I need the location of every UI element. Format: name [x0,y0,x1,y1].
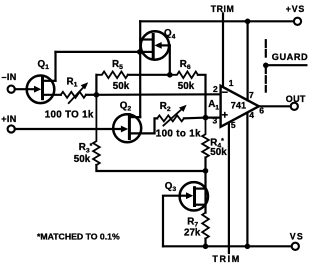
transistor Q2 [113,100,154,142]
node junction R1/R5/R3/pin2-wire [94,92,100,98]
resistor R1 (variable, 100 TO 1k) [45,76,94,120]
resistor R7 27k [184,213,209,239]
svg-text:100 to 1k: 100 to 1k [156,128,201,139]
wire +VS top rail [140,20,294,22]
resistor R5 50k [96,59,129,92]
svg-text:5: 5 [231,120,236,130]
wire Q1 drain up [54,52,56,81]
wire R5 to R6 junction [128,74,170,76]
wire TRIM top to op-amp pin 1 [222,14,224,88]
terminal VS [292,243,299,250]
node junction R5/R6/Q4-gate [167,72,173,78]
node GUARD dashed line [263,40,308,91]
svg-text:7: 7 [249,90,254,100]
wire -IN to Q1 gate [15,88,36,90]
svg-text:27k: 27k [184,228,201,239]
svg-text:R3*: R3* [79,142,93,154]
svg-text:A1: A1 [208,99,219,111]
wire +IN to Q2 gate [15,128,122,130]
wire op-amp pin 7 up to +VS rail [247,21,249,100]
svg-text:1: 1 [229,78,234,88]
wire pin3 node to op-amp [206,116,221,118]
svg-text:Q1: Q1 [38,59,50,71]
wire R5 left lead down to junction [95,75,97,95]
svg-text:50k: 50k [210,147,227,158]
svg-text:+VS: +VS [286,4,305,14]
svg-text:Q2: Q2 [120,100,132,112]
node junction Q1-drain/Q4-source/Q2-drain [137,49,143,55]
wire Q4 drain up to +VS rail [139,21,141,52]
svg-text:3: 3 [213,115,218,125]
svg-text:VS: VS [290,231,304,241]
transistor Q4 [140,28,175,59]
node junction R4/R3-wire/Q3-drain [203,168,209,174]
resistor R3 50k (matched) [74,95,100,165]
terminal +VS [294,18,301,25]
svg-text:R2: R2 [160,101,171,113]
svg-text:741: 741 [231,100,246,110]
svg-text:–IN: –IN [2,72,17,82]
wire Q2 source to R2 [155,118,158,133]
wire R2 to pin3 node [184,116,206,119]
svg-text:Q3: Q3 [165,181,177,193]
wire R6 right lead down to pin3 node [198,75,206,118]
wire op-amp pin 4 down to VS rail [246,113,248,247]
wire Q4 gate down to R5/R6 junction [169,45,171,74]
svg-text:*MATCHED TO 0.1%: *MATCHED TO 0.1% [37,232,120,242]
wire Q3 vertical drain/source line [204,171,206,213]
transistor Q1 [27,59,61,103]
node junction pin4/rail [245,244,251,250]
terminal OUT [291,103,298,110]
svg-text:2: 2 [213,84,218,94]
wire op-amp output pin 6 to OUT [259,105,291,107]
svg-text:OUT: OUT [286,94,306,104]
svg-text:50k: 50k [178,81,195,92]
wire Q3 gate to VS rail [163,196,180,247]
node junction R2/R6/R4/pin3 [203,115,209,121]
svg-text:+IN: +IN [1,114,16,124]
wire junction to op-amp pin 2 [96,93,220,96]
wire R4 bottom to Q3 drain node [204,158,206,171]
svg-text:R5: R5 [112,59,123,71]
svg-text:4: 4 [249,110,254,120]
terminal -IN [8,86,15,93]
transistor Q3 [165,181,208,211]
resistor R2 (variable, 100 to 1k) [156,101,201,139]
svg-text:Q4: Q4 [164,28,176,40]
svg-text:GUARD: GUARD [272,52,308,62]
resistor R4 50k (matched) [202,118,227,159]
svg-text:R1: R1 [67,76,78,88]
wire Q2 drain up to Q4 source node [139,52,141,117]
wire VS bottom rail [163,245,292,247]
wire op-amp pin 5 down to TRIM bottom [228,122,230,253]
node pin7 junction on +VS rail [245,19,251,25]
wire R7 bottom to rail [204,239,206,247]
svg-text:TRIM: TRIM [212,254,240,264]
wire Q1 drain rail to Q4 source [56,51,140,53]
wire R1 to junction [86,94,96,96]
svg-text:R6: R6 [180,59,191,71]
node junction R7/rail [203,244,209,250]
svg-text:100 TO 1k: 100 TO 1k [45,109,94,120]
resistor R6 50k [170,59,198,92]
svg-text:50k: 50k [74,154,91,165]
op-amp U1 741 [208,78,264,130]
svg-text:50k: 50k [113,81,130,92]
terminal +IN [8,125,15,132]
wire R3 bottom to Q3 drain node [96,165,205,171]
